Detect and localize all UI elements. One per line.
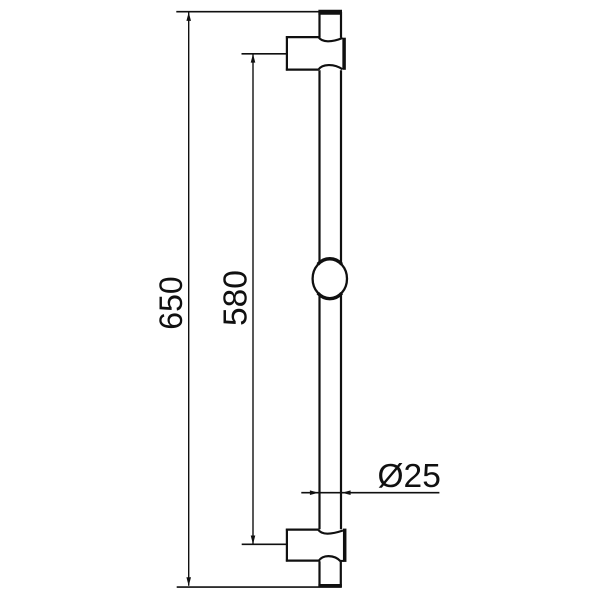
dimension diameter 25 line <box>301 492 439 494</box>
top bracket top edge <box>286 36 319 38</box>
bottom bracket left edge <box>286 529 288 562</box>
bottom bracket saddle dip <box>318 530 343 534</box>
top bracket saddle dip <box>319 37 343 41</box>
dimension 580 bottom extension line <box>242 543 287 545</box>
dimension 650 top extension line <box>176 11 318 13</box>
dimension 650 bottom extension line <box>177 586 342 588</box>
slider knob top arc <box>318 259 342 265</box>
bottom bracket right face <box>343 529 347 562</box>
arrowhead 650 up <box>186 12 191 21</box>
bottom bracket top edge <box>286 528 319 530</box>
slider knob bottom arc <box>318 293 342 299</box>
arrowhead d25 left-pointing <box>342 490 351 495</box>
svg-text:580: 580 <box>218 270 255 326</box>
dimension 580 line <box>252 54 254 543</box>
top bracket left edge <box>286 36 288 71</box>
bottom bracket dome-to-face connector <box>341 560 344 562</box>
bottom bracket bottom edge <box>286 559 319 561</box>
rod right edge <box>340 12 342 587</box>
svg-text:650: 650 <box>153 276 189 329</box>
top bracket right face <box>342 38 346 70</box>
arrowhead 580 up <box>251 54 256 63</box>
rod left edge <box>318 12 320 587</box>
dimension 580 top extension line <box>242 53 287 55</box>
rod bottom cap <box>318 584 341 587</box>
arrowhead 580 down <box>251 536 256 545</box>
dimension 650 line <box>188 12 190 585</box>
arrowhead d25 right-pointing <box>310 490 319 495</box>
svg-text:Ø25: Ø25 <box>378 458 441 495</box>
slider knob <box>313 259 347 298</box>
rod top cap <box>318 10 342 15</box>
bottom bracket saddle dome <box>319 556 341 561</box>
top bracket bottom edge <box>286 68 319 70</box>
arrowhead 650 down <box>186 577 191 586</box>
top bracket saddle dome <box>319 65 343 70</box>
